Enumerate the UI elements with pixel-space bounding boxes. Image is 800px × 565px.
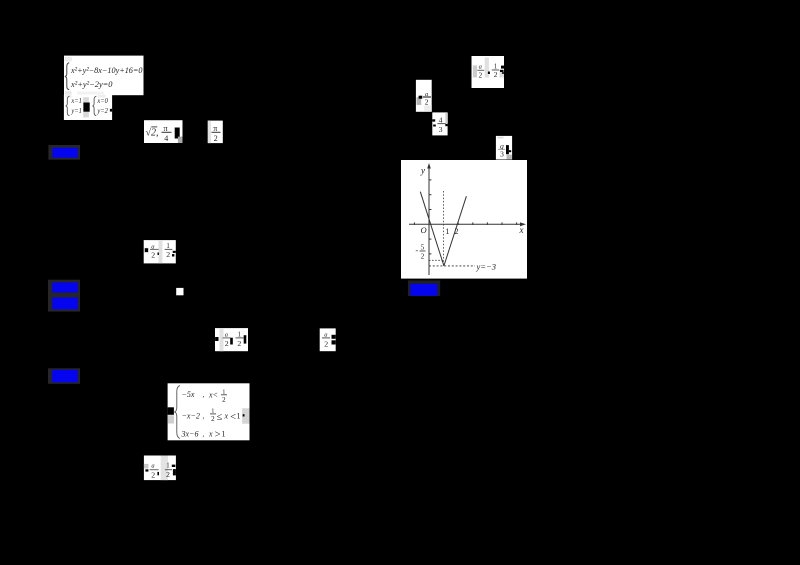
left branch of V [420,192,444,266]
svg-text:1: 1 [446,227,450,236]
svg-text:y=1: y=1 [71,106,82,115]
svg-text:−x−2: −x−2 [182,412,200,421]
svg-text:−5x: −5x [182,390,195,399]
svg-text:2: 2 [425,98,429,107]
svg-text:2: 2 [494,70,498,79]
svg-text:x²+y²−8x−10y+16=0: x²+y²−8x−10y+16=0 [70,65,143,75]
x axis [409,223,524,225]
svg-text:4: 4 [164,134,168,143]
answer link button B4 (below graph) [408,280,440,296]
svg-text:y: y [420,166,425,176]
svg-text:,: , [203,391,205,399]
svg-text:√2,: √2, [146,128,159,139]
svg-text:2: 2 [151,251,155,260]
svg-text:,: , [203,431,205,439]
svg-text:x: x [208,430,213,439]
answer link button B1 [48,145,80,160]
right branch of V [444,196,467,266]
svg-text:2: 2 [479,71,483,80]
svg-text:a: a [151,463,154,470]
dashed short y=-5/2 [429,259,444,261]
svg-text:x: x [224,412,229,421]
answer link button B3 [48,368,80,384]
svg-text:x: x [519,225,524,235]
svg-text:3: 3 [439,125,443,134]
equation box EQ9: a/2 1/2 (row 455) [144,456,176,481]
svg-text:1: 1 [166,462,169,469]
equation box EQ12: 4/3 [432,112,448,135]
y axis [428,167,430,276]
y ticks [429,179,431,181]
svg-text:-: - [416,246,419,255]
svg-text:2: 2 [225,339,229,348]
svg-text:>: > [214,430,221,441]
x ticks [413,222,415,225]
svg-text:π: π [213,124,217,133]
equation box EQ4: pi/2 [208,121,223,144]
graph panel [401,160,527,279]
svg-text:x²+y²−2y=0: x²+y²−2y=0 [70,79,113,89]
y axis arrowhead [427,163,431,169]
equation box EQ6: a/2 1/2 (row 330) [215,328,248,351]
equation box EQ7: a/2 (row 330) [320,328,336,351]
equation box EQ13: 4/3 with mark [496,136,512,160]
svg-text:2: 2 [211,415,215,423]
svg-text:,: , [203,413,205,421]
svg-text:1: 1 [222,430,226,439]
svg-text:x<: x< [208,391,218,400]
svg-text:2: 2 [214,134,218,143]
svg-text:≤: ≤ [217,412,223,423]
equation box EQ3: sqrt2, pi/4 [144,120,183,143]
svg-text:2: 2 [237,339,241,348]
svg-text:2: 2 [166,250,170,259]
svg-text:1: 1 [237,412,241,421]
svg-text:O: O [421,225,427,235]
svg-text:3x−6: 3x−6 [181,430,199,439]
svg-text:2: 2 [222,396,226,404]
equation box EQ2: two small solution systems [64,95,112,120]
equation box EQ10: a/2 1/2 (top right) [472,56,505,88]
svg-text:π: π [164,124,168,133]
svg-text:y=−3: y=−3 [476,262,497,272]
svg-text:2: 2 [421,253,425,261]
svg-text:1: 1 [222,388,225,395]
svg-text:2: 2 [455,227,459,236]
small white square S1 [176,288,183,295]
svg-text:3: 3 [500,149,504,158]
dashed vertical x=1 [443,191,445,266]
equation box EQ5: a/2 , 1/2 [144,240,176,263]
svg-text:1: 1 [211,407,214,414]
equation box EQ1: system of circle equations [64,56,144,96]
dashed horizontal y=-3 [429,265,475,267]
svg-text:2: 2 [166,470,170,479]
svg-text:2: 2 [324,339,328,348]
svg-text:y=2: y=2 [97,106,109,115]
svg-text:2: 2 [151,471,155,480]
svg-text:5: 5 [421,244,425,252]
answer link buttons B2 (two rows) [48,280,80,312]
equation box EQ11: a/2 (right column) [416,80,432,112]
svg-text:x=1: x=1 [71,96,82,105]
x axis arrowhead [520,222,526,226]
svg-text:x=0: x=0 [97,96,109,105]
equation box EQ8: piecewise function [168,383,250,440]
